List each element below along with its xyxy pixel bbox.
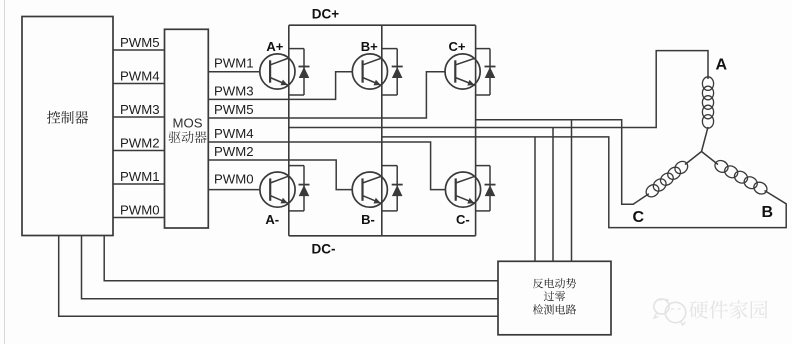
motor winding B (coil) xyxy=(713,158,730,174)
watermark logo bubbles xyxy=(654,299,669,314)
svg-text:A: A xyxy=(716,57,728,74)
transistor Q6 (C-) xyxy=(445,172,480,207)
wire PWM2 MOS to Q5 base xyxy=(208,160,352,190)
phase B rail xyxy=(381,25,383,236)
diode D2 (freewheel of Q2) xyxy=(382,48,397,50)
svg-text:PWM4: PWM4 xyxy=(120,68,160,83)
wire controller to detector 2 xyxy=(82,236,499,299)
svg-text:PWM2: PWM2 xyxy=(120,135,160,150)
wire PWM3 MOS to Q2 base xyxy=(208,72,353,100)
transistor Q2 (B+) xyxy=(352,54,387,89)
svg-text:C: C xyxy=(633,209,645,226)
phase A rail xyxy=(288,25,290,236)
svg-text:PWM0: PWM0 xyxy=(120,202,160,217)
wire PWM1 controller to MOS driver xyxy=(113,183,165,185)
wire phase C tap to detector xyxy=(571,120,573,261)
DC- bottom rail xyxy=(289,235,476,237)
svg-text:DC+: DC+ xyxy=(312,7,339,22)
diode D1 (freewheel of Q1) xyxy=(289,48,304,50)
wire phase B tap to detector xyxy=(534,137,536,261)
watermark text 硬件家园 xyxy=(689,300,767,318)
back-EMF zero-cross detector box (反电动势过零检测电路) xyxy=(498,261,611,335)
svg-text:PWM1: PWM1 xyxy=(214,56,254,71)
diode D6 (freewheel of Q6) xyxy=(476,165,490,167)
svg-text:PWM5: PWM5 xyxy=(214,102,254,117)
svg-text:B: B xyxy=(762,204,774,221)
node star point xyxy=(701,151,703,153)
wire phase C output xyxy=(476,120,649,204)
transistor Q5 (B-) xyxy=(352,172,387,207)
wire phase A tap to detector xyxy=(552,128,554,262)
svg-text:A+: A+ xyxy=(266,39,283,54)
svg-text:PWM3: PWM3 xyxy=(214,83,254,98)
wire phase A output xyxy=(289,51,708,128)
svg-text:B-: B- xyxy=(361,212,375,227)
wire PWM4 MOS to Q6 base xyxy=(208,142,446,190)
MOS driver box U2 (MOS 驱动器) xyxy=(165,29,209,228)
wire PWM2 controller to MOS driver xyxy=(113,150,165,152)
wire controller to detector 1 xyxy=(104,236,498,281)
wire star to B coil xyxy=(702,152,719,165)
svg-text:MOS: MOS xyxy=(172,116,202,131)
controller box U1 (控制器) xyxy=(22,17,113,236)
wire controller to detector 3 xyxy=(59,236,498,316)
wire star to C coil xyxy=(685,152,702,165)
diode D3 (freewheel of Q3) xyxy=(476,48,490,50)
motor winding A (coil) xyxy=(702,77,713,91)
svg-text:PWM4: PWM4 xyxy=(214,126,254,141)
transistor Q1 (A+) xyxy=(260,54,295,89)
wire PWM1 MOS to Q1 base xyxy=(208,71,260,73)
svg-text:PWM2: PWM2 xyxy=(214,144,254,159)
transistor Q4 (A-) xyxy=(260,172,295,207)
svg-text:DC-: DC- xyxy=(312,242,336,257)
wire phase B output xyxy=(382,137,786,228)
diode D5 (freewheel of Q5) xyxy=(382,165,397,167)
motor winding C (coil) xyxy=(672,159,690,176)
svg-text:C-: C- xyxy=(456,212,470,227)
svg-text:A-: A- xyxy=(265,212,279,227)
wire A coil to star point xyxy=(702,127,709,152)
wire PWM0 controller to MOS driver xyxy=(113,217,165,219)
diode D4 (freewheel of Q4) xyxy=(289,165,304,167)
phase C rail xyxy=(475,25,477,236)
DC+ top rail xyxy=(289,24,476,26)
wire PWM5 controller to MOS driver xyxy=(113,49,165,51)
wire PWM4 controller to MOS driver xyxy=(113,83,165,85)
svg-text:B+: B+ xyxy=(361,39,378,54)
wire PWM5 MOS to Q3 base xyxy=(208,72,445,118)
transistor Q3 (C+) xyxy=(445,54,480,89)
svg-text:PWM3: PWM3 xyxy=(120,102,160,117)
svg-text:PWM0: PWM0 xyxy=(214,171,254,186)
wire PWM0 MOS to Q4 base xyxy=(208,189,260,191)
faint page left border xyxy=(4,0,6,344)
svg-text:PWM1: PWM1 xyxy=(120,169,160,184)
svg-text:PWM5: PWM5 xyxy=(120,35,160,50)
svg-text:C+: C+ xyxy=(449,39,466,54)
wire PWM3 controller to MOS driver xyxy=(113,116,165,118)
